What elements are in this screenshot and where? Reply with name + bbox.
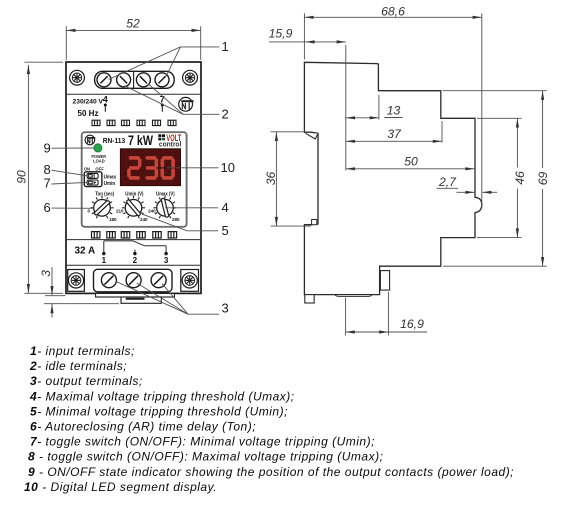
- front view body outline: [66, 62, 201, 293]
- knob Ton: [90, 196, 113, 218]
- dimension 50: [346, 168, 475, 170]
- callout 3 leader lines: [116, 281, 188, 314]
- svg-text:Umax: Umax: [104, 174, 117, 180]
- dimension 15,9: [269, 41, 305, 43]
- front face notch: [306, 133, 318, 139]
- svg-text:16,9: 16,9: [400, 317, 424, 331]
- svg-text:52: 52: [126, 16, 140, 30]
- svg-text:Ton (sec): Ton (sec): [95, 191, 114, 197]
- top terminal block: [95, 71, 175, 88]
- dim 69 extension lines: [443, 90, 547, 92]
- svg-text:9: 9: [44, 141, 51, 156]
- dimension 36: [275, 132, 277, 226]
- dimension 2,7: [437, 187, 459, 189]
- svg-text:1: 1: [102, 256, 107, 265]
- svg-text:5- Minimal voltage tripping th: 5- Minimal voltage tripping threshold (U…: [30, 404, 288, 418]
- vent slots row 2: [92, 232, 177, 238]
- callout 2 leader lines: [125, 86, 183, 114]
- callout 10 leader line: [167, 167, 219, 169]
- knob Umax: [153, 196, 176, 218]
- section line below top terminals: [66, 93, 201, 95]
- callout 9 leader line: [52, 147, 94, 149]
- dimension 13: [346, 117, 379, 119]
- callout 8 leader line: [52, 170, 88, 176]
- digit 0: [164, 156, 172, 160]
- svg-text:OFF: OFF: [95, 167, 104, 172]
- bottom terminal screw B2: [126, 273, 141, 288]
- svg-text:LOAD: LOAD: [93, 159, 105, 165]
- svg-text:control: control: [159, 139, 181, 148]
- bottom terminal screw B1: [101, 273, 116, 288]
- svg-text:32 A: 32 A: [75, 245, 96, 256]
- NT logo (panel): [85, 135, 95, 145]
- svg-text:280: 280: [172, 217, 180, 222]
- vent slots row 1: [92, 120, 176, 125]
- svg-text:2: 2: [133, 256, 138, 265]
- dimension 68,6: [304, 16, 481, 18]
- svg-text:46: 46: [513, 171, 527, 185]
- svg-text:240: 240: [140, 217, 148, 222]
- relay contact diagram: [104, 241, 166, 252]
- bottom front tab (side): [305, 295, 314, 303]
- svg-text:3: 3: [39, 270, 53, 277]
- terminal screw T3: [136, 73, 150, 87]
- dim 16,9 extension lines: [345, 298, 347, 336]
- svg-text:10: 10: [221, 160, 235, 175]
- digit 3: [147, 156, 155, 160]
- svg-text:9 - ON/OFF state indicator sho: 9 - ON/OFF state indicator showing the p…: [28, 465, 514, 479]
- dim 46 extension lines: [477, 117, 522, 119]
- digital display digits 230: [129, 158, 173, 178]
- dim 36 extension lines: [271, 131, 304, 133]
- contact pin numbers 1 2 3: [102, 256, 169, 265]
- knob Umin: [122, 196, 145, 218]
- svg-text:5: 5: [222, 223, 229, 238]
- svg-text:2- idle terminals;: 2- idle terminals;: [29, 359, 127, 373]
- callout 6 leader line: [52, 207, 94, 209]
- svg-text:6- Autoreclosing (AR) time del: 6- Autoreclosing (AR) time delay (Ton);: [30, 420, 256, 434]
- svg-text:8 - toggle switch (ON/OFF): Ma: 8 - toggle switch (ON/OFF): Maximal volt…: [28, 450, 383, 464]
- dimension 3 extension lines: [45, 295, 66, 297]
- front panel border: [82, 132, 187, 227]
- toggle switch Umin (7): [87, 180, 98, 185]
- dimension 90 extension lines: [24, 61, 63, 63]
- svg-text:50: 50: [404, 155, 418, 169]
- svg-text:2,7: 2,7: [438, 175, 457, 189]
- terminal screw T1: [97, 73, 111, 87]
- callout 1 leader lines: [109, 47, 181, 80]
- corner screw top-left: [70, 70, 85, 85]
- svg-text:3: 3: [222, 301, 229, 316]
- terminal screw T4: [155, 73, 169, 87]
- svg-text:10 - Digital LED segment displ: 10 - Digital LED segment display.: [24, 480, 217, 494]
- svg-text:15,9: 15,9: [269, 27, 293, 41]
- dimension 69: [542, 91, 544, 267]
- dim 15,9 reference line: [345, 45, 347, 171]
- svg-text:210: 210: [116, 208, 124, 213]
- svg-text:4- Maximal voltage tripping th: 4- Maximal voltage tripping threshold (U…: [29, 389, 295, 403]
- svg-text:RN-113: RN-113: [103, 138, 125, 145]
- svg-text:ON: ON: [84, 167, 90, 172]
- terminal block divider: [133, 71, 135, 88]
- side profile outline: [304, 62, 481, 294]
- callout 4 leader line: [165, 207, 218, 209]
- dim 68,6 extension lines: [303, 13, 305, 59]
- callout 7 leader line: [52, 182, 88, 184]
- dim 13 extension line: [378, 95, 380, 120]
- svg-text:6: 6: [44, 200, 51, 215]
- knob scale numbers: [87, 208, 180, 222]
- DIN clip tab wide: [96, 293, 175, 297]
- dimension 16,9: [346, 331, 389, 333]
- NT maker logo (top): [179, 97, 194, 111]
- dimension 52: [66, 29, 200, 31]
- dimension 3: [51, 267, 53, 295]
- DIN clip tab narrow: [121, 297, 161, 303]
- svg-text:50 Hz: 50 Hz: [78, 109, 99, 118]
- corner screw bottom-right with plate: [181, 270, 199, 292]
- svg-text:7 kW: 7 kW: [128, 133, 153, 148]
- svg-text:13: 13: [387, 103, 401, 117]
- svg-text:1- input terminals;: 1- input terminals;: [30, 344, 135, 358]
- power/load LED indicator: [94, 144, 102, 152]
- svg-text:3- output terminals;: 3- output terminals;: [30, 374, 143, 388]
- svg-text:1: 1: [222, 39, 229, 54]
- dimension 46: [516, 118, 518, 237]
- LED segment display bezel: [120, 149, 180, 186]
- section line above bottom area: [66, 239, 201, 241]
- terminal screw T2: [117, 73, 131, 87]
- svg-text:8: 8: [44, 162, 51, 177]
- front face lower bump: [312, 220, 317, 225]
- callout 5 leader lines: [142, 214, 187, 231]
- svg-text:4: 4: [222, 200, 229, 215]
- svg-text:36: 36: [264, 172, 278, 186]
- DIN clip slider (side): [380, 271, 389, 291]
- VOLT control logo squares: [158, 134, 165, 140]
- svg-text:69: 69: [536, 172, 550, 186]
- dimension 37: [346, 140, 442, 142]
- bottom terminal screw B3: [151, 273, 166, 288]
- bottom recess line: [335, 295, 372, 297]
- svg-text:7: 7: [44, 176, 51, 191]
- svg-text:37: 37: [387, 127, 402, 141]
- svg-text:7- toggle switch (ON/OFF): Min: 7- toggle switch (ON/OFF): Minimal volta…: [30, 435, 375, 449]
- svg-text:2: 2: [222, 107, 229, 122]
- svg-text:4: 4: [103, 94, 108, 104]
- toggle switch Umax (8): [87, 173, 98, 178]
- svg-text:230/240 V: 230/240 V: [73, 99, 104, 106]
- dimension 90: [27, 65, 29, 293]
- section line above bottom terminals: [66, 264, 201, 266]
- digit 2: [131, 156, 139, 160]
- svg-text:Umin: Umin: [104, 181, 116, 187]
- toggle switch housing: [84, 172, 102, 187]
- svg-text:Umin (V): Umin (V): [125, 191, 143, 197]
- svg-text:3: 3: [164, 256, 169, 265]
- svg-text:180: 180: [109, 217, 117, 222]
- svg-text:68,6: 68,6: [381, 4, 405, 18]
- svg-text:90: 90: [14, 170, 28, 184]
- corner screw bottom-left with plate: [68, 270, 85, 292]
- dimension 52 extension lines: [65, 26, 67, 60]
- corner screw top-right: [183, 70, 198, 85]
- dim 37 extension line: [441, 121, 443, 143]
- bottom terminal block: [94, 269, 173, 292]
- svg-text:240: 240: [148, 208, 156, 213]
